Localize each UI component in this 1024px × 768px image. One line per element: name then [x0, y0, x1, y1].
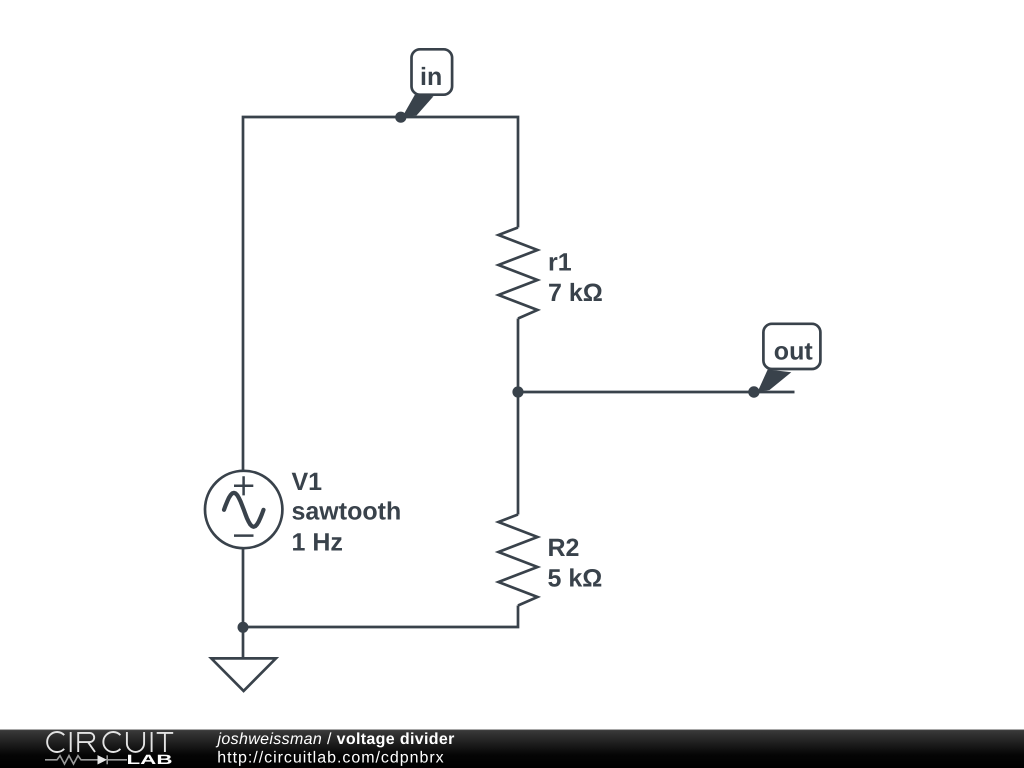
ground triangle	[211, 658, 276, 691]
in flag box	[412, 49, 453, 94]
svg-text:LAB: LAB	[127, 752, 173, 767]
logo diode triangle	[98, 755, 108, 764]
svg-text:sawtooth: sawtooth	[292, 498, 402, 526]
wire right vertical middle	[517, 319, 520, 515]
svg-text:joshweissman / voltage divider: joshweissman / voltage divider	[216, 731, 455, 748]
logo CIRCUIT lettering	[47, 732, 173, 752]
out flag box	[763, 324, 820, 369]
svg-text:in: in	[420, 63, 442, 91]
svg-text:out: out	[774, 338, 814, 366]
wire out horizontal	[518, 391, 795, 394]
in flag tail	[402, 95, 434, 118]
footer bar	[0, 729, 1024, 768]
node dot bottom junction	[238, 622, 249, 633]
V1 plus sign	[234, 476, 253, 495]
V1 sine wave	[224, 493, 264, 527]
node dot in	[395, 112, 406, 123]
out flag tail	[758, 370, 792, 393]
voltage source V1 circle	[205, 471, 282, 548]
resistor r1 zigzag	[499, 228, 538, 319]
logo resistor-diode line	[45, 755, 127, 764]
wire top loop: left vertical, top horizontal, right vertical to r1	[243, 117, 518, 471]
svg-text:7 kΩ: 7 kΩ	[548, 279, 603, 307]
svg-text:http://circuitlab.com/cdpnbrx: http://circuitlab.com/cdpnbrx	[217, 750, 444, 767]
svg-text:r1: r1	[548, 249, 572, 277]
svg-text:5 kΩ: 5 kΩ	[548, 565, 603, 593]
node dot mid junction	[512, 386, 523, 397]
resistor R2 zigzag	[499, 515, 538, 606]
V1 minus sign	[234, 534, 254, 537]
svg-text:V1: V1	[292, 468, 323, 496]
svg-text:R2: R2	[548, 534, 580, 562]
node dot out	[748, 386, 759, 397]
svg-text:1 Hz: 1 Hz	[292, 529, 343, 557]
ground stub wire	[242, 627, 245, 658]
wire bottom loop: left vertical lower, bottom horizontal, right vertical from R2	[243, 548, 518, 627]
